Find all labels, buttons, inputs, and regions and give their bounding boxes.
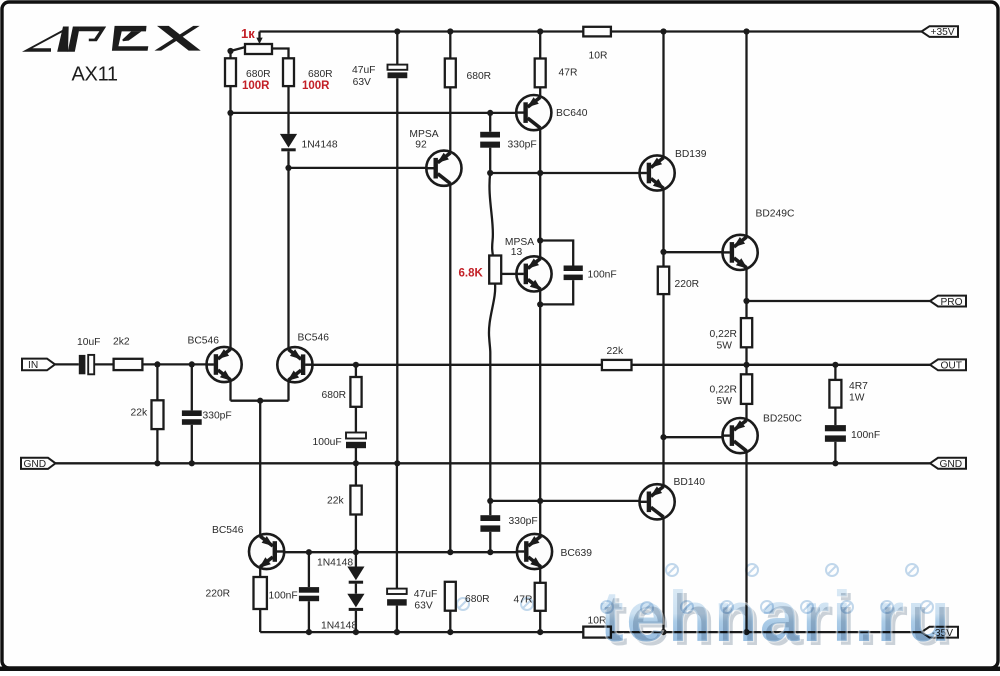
svg-text:47uF: 47uF bbox=[352, 65, 375, 76]
resistor 10R top (in rail) bbox=[583, 27, 611, 37]
svg-text:100uF: 100uF bbox=[313, 437, 342, 448]
svg-text:5W: 5W bbox=[717, 340, 733, 351]
tag PRO bbox=[930, 296, 966, 308]
svg-text:BC640: BC640 bbox=[556, 108, 588, 119]
wire PRO line bbox=[747, 300, 931, 302]
svg-text:GND: GND bbox=[940, 459, 963, 470]
wire 22k input branch bbox=[156, 364, 158, 400]
wire pot left terminal diagonal bbox=[231, 47, 246, 51]
wire pot wiper from rail bbox=[258, 32, 260, 40]
transistor Q3 MPSA92 bbox=[426, 151, 461, 186]
wire 10uF to 2k2 bbox=[94, 363, 113, 365]
svg-text:13: 13 bbox=[511, 247, 523, 258]
wire 100nF bottom stub bbox=[540, 280, 573, 304]
wire 4R7 to 100nF bbox=[834, 408, 836, 426]
APEX logo letter X bbox=[155, 26, 201, 51]
svg-text:1W: 1W bbox=[849, 392, 865, 403]
wire 220R bottom long vertical to BD140 bbox=[662, 294, 664, 485]
diode 1N4148 lower of pair bbox=[347, 594, 364, 611]
resistor 22k input bbox=[152, 400, 164, 429]
wire +35V rail right segment bbox=[611, 30, 922, 32]
wire IN tag to 10uF bbox=[55, 363, 79, 365]
svg-text:BC546: BC546 bbox=[188, 336, 220, 347]
wire 330pF input branch bbox=[191, 364, 193, 410]
svg-text:0,22R: 0,22R bbox=[710, 329, 737, 340]
diode 1N4148 upper of pair bbox=[347, 567, 364, 584]
svg-text:tehnari.ru: tehnari.ru bbox=[600, 578, 952, 657]
wire BD249C base bbox=[664, 251, 723, 253]
resistor 2k2 bbox=[114, 359, 143, 370]
transistor Q2 BC546 (mirrored) bbox=[277, 347, 312, 382]
svg-text:BD249C: BD249C bbox=[756, 208, 795, 219]
wire 680R bottom to rail bbox=[449, 611, 451, 632]
svg-text:1N4148: 1N4148 bbox=[317, 557, 353, 568]
wire BC546 Q1 emitter bbox=[229, 381, 231, 401]
svg-text:220R: 220R bbox=[206, 588, 231, 599]
svg-text:PRO: PRO bbox=[941, 297, 963, 308]
diode 1N4148 top bbox=[280, 134, 297, 151]
transistor Q8 BD140 bbox=[640, 484, 675, 519]
wire 2k2 to BC546 base bbox=[142, 363, 206, 365]
wire BD139 emitter to 220R bbox=[662, 189, 664, 266]
watermark copyright circles bbox=[457, 564, 933, 614]
resistor 10R bottom (in rail) bbox=[583, 627, 611, 638]
capacitor 47uF 63V bottom (polarized) bbox=[387, 589, 407, 606]
wire OUT rail from BC546 Q2 base to 22k bbox=[313, 364, 602, 366]
wire BC640 collector down to MPSA13 bbox=[539, 129, 541, 257]
capacitor 330pF lower bbox=[480, 515, 500, 532]
transistor Q5 BC546 (mirrored, bottom) bbox=[249, 534, 284, 569]
wire MPSA13 emitter long vertical down to BC639 bbox=[539, 290, 541, 535]
junction dots top section bbox=[227, 28, 749, 255]
potentiometer 1k body bbox=[245, 44, 272, 54]
wire 47uF bottom branch from GND bbox=[396, 463, 398, 588]
capacitor 330pF input bbox=[182, 410, 202, 424]
svg-text:BC546: BC546 bbox=[212, 525, 244, 536]
wire node line to BC640 base bbox=[231, 112, 516, 114]
resistor 220R driver bbox=[658, 267, 669, 295]
wire BD139 base line bbox=[490, 172, 639, 174]
wire tail current down to BC546 Q5 bbox=[259, 401, 261, 535]
svg-text:330pF: 330pF bbox=[509, 516, 538, 527]
wire BC546 Q1 collector bbox=[229, 113, 231, 348]
tag -35V bbox=[922, 627, 959, 639]
wire 100nF to GND bbox=[834, 442, 836, 464]
wire between 0.22R resistors across OUT rail bbox=[745, 347, 747, 374]
wire BD249C collector from rail bbox=[745, 32, 747, 237]
svg-text:100R: 100R bbox=[302, 80, 330, 92]
APEX logo letter E bbox=[112, 26, 148, 51]
resistor 680R feedback bbox=[350, 377, 361, 407]
resistor 0.22R 5W bottom bbox=[741, 374, 752, 404]
resistor 47R top bbox=[535, 59, 546, 88]
wire pot right terminal bbox=[272, 49, 289, 59]
wire emitter joint of diff pair bbox=[231, 400, 289, 402]
wire 100nF top stub bbox=[540, 241, 573, 266]
wire 0.22R bottom to BD250C bbox=[745, 404, 747, 419]
wire BD249C emitter to 0.22R bbox=[745, 269, 747, 318]
wire 47uF cap down long vertical to GND rail bbox=[396, 78, 398, 463]
wire left 680R bottom to node line bbox=[229, 86, 231, 113]
svg-text:220R: 220R bbox=[675, 279, 700, 290]
resistor 6.8K bbox=[489, 256, 501, 284]
wire diode cathode to MPSA92 base line bbox=[287, 151, 289, 168]
junction dots bottom section bbox=[306, 498, 750, 635]
transistor Q1 BC546 bbox=[207, 347, 242, 382]
wire left 680R top bbox=[229, 51, 231, 58]
wire BC639 emitter to 47R bbox=[539, 568, 541, 583]
resistor 47R bottom bbox=[535, 583, 546, 611]
svg-text:OUT: OUT bbox=[941, 361, 963, 372]
svg-text:2k2: 2k2 bbox=[113, 336, 130, 347]
wire 47R bottom to BC640 emitter bbox=[539, 87, 541, 96]
resistor 22k on OUT rail bbox=[602, 360, 632, 370]
wire 680R mid top from rail bbox=[449, 32, 451, 59]
resistor 680R left (100R) bbox=[225, 58, 236, 86]
APEX logo letter P bbox=[68, 27, 107, 52]
svg-text:AX11: AX11 bbox=[72, 64, 118, 86]
svg-text:100nF: 100nF bbox=[269, 590, 298, 601]
svg-text:100nF: 100nF bbox=[588, 269, 617, 280]
wire BC546 Q2 collector bbox=[287, 168, 289, 348]
wire diode pair top bbox=[355, 552, 357, 566]
wire 47R top from rail bbox=[539, 32, 541, 59]
tag GND left bbox=[21, 458, 56, 470]
wire 680R to 100uF bbox=[355, 407, 357, 433]
wire 47uF bottom to rail bbox=[396, 606, 398, 633]
resistor 220R bottom left bbox=[254, 577, 267, 609]
transistor Q10 BD250C bbox=[723, 418, 758, 453]
svg-text:22k: 22k bbox=[131, 407, 148, 418]
resistor 680R mid column bbox=[445, 59, 456, 88]
wire BD139 collector from rail bbox=[662, 32, 664, 157]
wire 100nF bottom-left branch bbox=[308, 552, 310, 587]
resistor 0.22R 5W top bbox=[741, 318, 752, 347]
wire BC546 Q5 emitter to 220R bbox=[259, 568, 261, 577]
wire MPSA92 collector long vertical down bbox=[449, 185, 451, 553]
wire squiggle hand-drawn 6.8K down to straight section bbox=[489, 284, 495, 501]
wire BD140 emitter to rail bbox=[662, 518, 664, 632]
wire OUT rail from 22k to OUT tag bbox=[632, 364, 931, 366]
svg-text:BD250C: BD250C bbox=[763, 413, 802, 424]
resistor 4R7 1W bbox=[829, 380, 841, 408]
resistor 680R bottom bbox=[445, 582, 456, 611]
wire 220R to bottom rail bbox=[259, 609, 261, 632]
junction dots mid section bbox=[154, 298, 838, 467]
tag IN bbox=[22, 359, 55, 372]
transistor Q7 BD139 bbox=[640, 155, 675, 190]
svg-text:BD140: BD140 bbox=[674, 477, 706, 488]
svg-text:63V: 63V bbox=[353, 77, 371, 88]
wire 47uF top branch from rail bbox=[396, 32, 398, 65]
svg-text:6.8K: 6.8K bbox=[459, 268, 484, 280]
svg-text:IN: IN bbox=[28, 360, 38, 371]
wire 22k input to GND bbox=[156, 429, 158, 463]
svg-text:10uF: 10uF bbox=[77, 337, 100, 348]
wire 22k feedback to base line bbox=[355, 515, 357, 553]
wire right 680R bottom to diode bbox=[287, 86, 289, 134]
svg-text:47R: 47R bbox=[559, 67, 578, 78]
svg-text:680R: 680R bbox=[308, 69, 333, 80]
svg-text:63V: 63V bbox=[414, 600, 432, 611]
wire BD250C base bbox=[664, 436, 723, 438]
capacitor 330pF top middle bbox=[480, 132, 500, 148]
svg-text:22k: 22k bbox=[327, 495, 344, 506]
wire BD140 base line bbox=[490, 500, 639, 502]
capacitor 100nF bottom left bbox=[299, 587, 319, 601]
capacitor 10uF input (polarized) bbox=[79, 355, 94, 374]
svg-text:680R: 680R bbox=[467, 71, 492, 82]
svg-text:MPSA: MPSA bbox=[409, 129, 438, 140]
svg-text:47uF: 47uF bbox=[414, 589, 437, 600]
transistor Q4 BC640 bbox=[516, 95, 551, 130]
svg-text:10R: 10R bbox=[589, 50, 608, 61]
wire squiggle hand-drawn from BD139 base node down to 6.8K bbox=[489, 173, 492, 256]
svg-text:680R: 680R bbox=[246, 69, 271, 80]
watermark tehnari.ru bbox=[600, 578, 956, 661]
wire 100nF bottom-left to rail bbox=[308, 601, 310, 632]
wire bottom rail left segment bbox=[260, 631, 583, 633]
APEX logo letter A bbox=[22, 27, 69, 52]
svg-text:1N4148: 1N4148 bbox=[321, 621, 357, 632]
capacitor 100nF at MPSA13 bbox=[564, 266, 583, 281]
wire 47R bottom to rail bbox=[539, 611, 541, 632]
transistor Q6 MPSA13 bbox=[516, 256, 551, 291]
wire 330pF lower branch bottom bbox=[489, 532, 491, 552]
wire 330pF lower branch top bbox=[489, 501, 491, 515]
svg-text:BC639: BC639 bbox=[561, 548, 593, 559]
resistor 22k feedback lower bbox=[350, 486, 361, 515]
svg-text:BC546: BC546 bbox=[298, 333, 330, 344]
capacitor 100nF output zobel bbox=[825, 425, 846, 442]
capacitor 47uF 63V top (polarized) bbox=[388, 65, 408, 79]
wire MPSA92 base line bbox=[289, 167, 427, 169]
svg-text:100nF: 100nF bbox=[851, 430, 880, 441]
svg-text:0,22R: 0,22R bbox=[710, 385, 737, 396]
potentiometer wiper arrow bbox=[256, 38, 262, 44]
svg-text:1N4148: 1N4148 bbox=[302, 140, 338, 151]
wire between diodes bbox=[355, 584, 357, 594]
wire 680R feedback branch bbox=[355, 365, 357, 377]
wire 100uF to GND rail bbox=[355, 448, 357, 463]
wire 4R7 branch from OUT bbox=[834, 365, 836, 380]
wire BC546 Q2 emitter bbox=[287, 381, 289, 401]
svg-text:330pF: 330pF bbox=[203, 410, 232, 421]
transistor Q11 BC639 bbox=[517, 534, 552, 569]
capacitor 100uF feedback (polarized) bbox=[346, 433, 366, 449]
wire BC546 Q5 base line to BC639 bbox=[284, 551, 517, 553]
svg-text:22k: 22k bbox=[607, 346, 624, 357]
tag +35V bbox=[922, 26, 959, 38]
tag GND right bbox=[930, 458, 966, 470]
tag OUT bbox=[930, 359, 966, 371]
svg-text:92: 92 bbox=[415, 140, 427, 151]
wire bottom rail right segment bbox=[611, 631, 922, 633]
wire GND rail bbox=[56, 462, 931, 464]
wire +35V rail left segment bbox=[260, 30, 584, 32]
wire 680R mid bottom to MPSA92 emitter bbox=[449, 87, 451, 152]
svg-text:4R7: 4R7 bbox=[849, 381, 868, 392]
wire MPSA13 base bbox=[501, 273, 516, 275]
wire 330pF tap from BC640 base line bbox=[489, 113, 491, 132]
wire 330pF bottom to BD139 base line bbox=[489, 148, 491, 173]
wire 330pF input to GND bbox=[191, 425, 193, 464]
svg-text:5W: 5W bbox=[717, 396, 733, 407]
svg-text:GND: GND bbox=[24, 459, 47, 470]
svg-text:+35V: +35V bbox=[931, 27, 955, 38]
svg-text:1к: 1к bbox=[241, 26, 255, 41]
svg-text:100R: 100R bbox=[242, 80, 270, 92]
wire GND to 22k feedback bbox=[355, 463, 357, 485]
svg-text:BD139: BD139 bbox=[675, 149, 707, 160]
wire diode pair bottom to rail bbox=[355, 611, 357, 632]
transistor Q9 BD249C bbox=[723, 235, 758, 270]
wire BD250C collector to rail bbox=[745, 452, 747, 632]
resistor 680R right (100R) bbox=[283, 58, 294, 86]
svg-text:680R: 680R bbox=[322, 390, 347, 401]
svg-text:330pF: 330pF bbox=[508, 140, 537, 151]
